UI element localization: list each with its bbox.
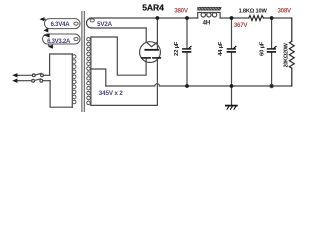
winding 5V2A leads (87, 18, 147, 28)
wire center tap to ground rail (91, 69, 106, 86)
arrow mains bottom (12, 79, 17, 83)
arrow mains top (12, 73, 17, 77)
svg-text:1.8KΩ 10W: 1.8KΩ 10W (239, 8, 268, 14)
tube 5AR4 envelope (140, 42, 161, 63)
svg-text:22 µF: 22 µF (174, 41, 180, 56)
inductor L1 4H choke (198, 13, 220, 19)
arrow 6.3V3.2A bottom (48, 45, 53, 49)
transformer T1 primary winding (50, 54, 76, 107)
resistor R1 1.8K 10W (249, 16, 264, 21)
wire 5V bottom to heater (145, 28, 147, 42)
wire ground rail with hop (106, 84, 292, 86)
arrow 6.3V4A bottom (43, 28, 48, 32)
switch S1 top pole (18, 73, 50, 76)
tube cathode bar (145, 49, 158, 51)
capacitor C2 44uF (228, 18, 236, 86)
winding 6.3V4A capsule (42, 19, 81, 31)
capacitor C1 22uF (183, 18, 191, 86)
svg-text:4H: 4H (203, 20, 210, 26)
svg-text:5V2A: 5V2A (97, 21, 112, 28)
wire HV bottom to right plate (91, 58, 157, 106)
node junction dot rail-C2 (230, 16, 234, 20)
winding 6.3V3.2A capsule (43, 34, 81, 47)
tube plate right (153, 57, 161, 59)
node junction dot gnd-C2 (230, 84, 234, 88)
svg-text:5AR4: 5AR4 (142, 3, 164, 13)
switch S1 bottom pole (18, 79, 51, 82)
svg-text:6.3V4A: 6.3V4A (51, 22, 71, 28)
svg-text:308V: 308V (277, 7, 292, 14)
svg-text:380V: 380V (174, 7, 189, 14)
node junction dot rail-tube (156, 16, 160, 20)
tube plate left (142, 57, 150, 59)
tube heater filament V (146, 42, 157, 47)
node junction dot gnd-C1 (185, 84, 189, 88)
svg-text:367V: 367V (234, 22, 249, 29)
ground symbol (226, 86, 237, 109)
wire cathode drop (156, 18, 158, 50)
node junction dot rail-C3 (270, 16, 274, 20)
svg-text:345V x 2: 345V x 2 (99, 90, 124, 97)
svg-text:60 µF: 60 µF (259, 41, 265, 56)
resistor R2 20K 20W bleeder (289, 18, 294, 86)
node junction dot gnd-C3 (270, 84, 274, 88)
arrow 6.3V4A top (39, 17, 44, 21)
transformer core (81, 12, 83, 112)
capacitor C3 60uF (268, 18, 276, 86)
node junction dot rail-C1 (185, 16, 189, 20)
wire HV top to left plate (91, 37, 146, 75)
wire top B+ rail left segment (92, 17, 198, 19)
winding HV 345Vx2 (87, 37, 91, 105)
arrow 6.3V3.2A top (45, 33, 50, 37)
wire top B+ rail right segment (220, 17, 249, 19)
wire top rail to bleeder corner (263, 17, 291, 19)
inductor L1 core hatch (198, 7, 221, 10)
svg-text:6.3V3.2A: 6.3V3.2A (47, 39, 71, 45)
svg-text:44 µF: 44 µF (218, 41, 224, 56)
svg-text:20KΩ20W: 20KΩ20W (284, 42, 290, 67)
